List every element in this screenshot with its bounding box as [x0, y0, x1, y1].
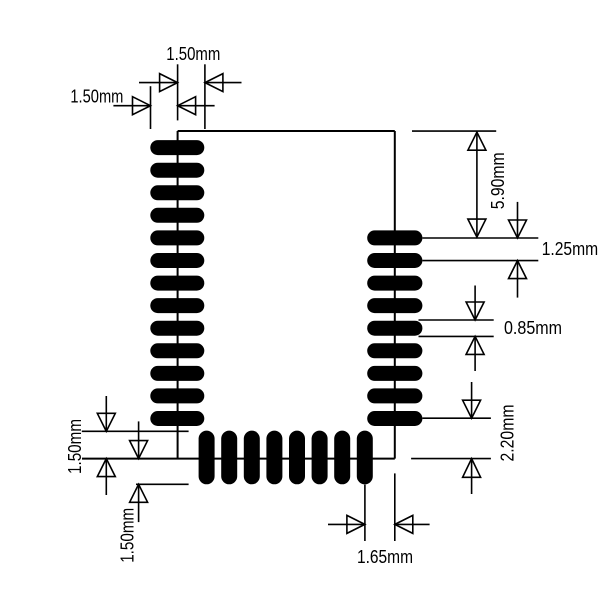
left dim 1.50mm up arrow tail: [105, 459, 107, 495]
top dim 1.50mm left-pointing arrowhead: [205, 74, 223, 92]
bottom dim 1.65mm extension line at x=394.8 (outline right prolonged): [394, 473, 396, 541]
right dim 0.85mm up arrow tail: [474, 336, 476, 371]
second top dim 1.50mm left-pointing arrow tail: [178, 105, 215, 107]
top dim 1.50mm (pad right edge to outline) extension line at x=177.6: [177, 64, 179, 120]
right dim 1.25mm up arrow tail: [517, 261, 519, 298]
left dim 1.50mm down arrowhead: [97, 413, 115, 431]
bottom pad row pad 8: [357, 431, 373, 485]
module outline right edge: [394, 131, 396, 459]
left dim 1.50mm up arrowhead: [97, 459, 115, 477]
bottom pad row pad 1: [199, 431, 215, 485]
left pad column pad 1: [150, 140, 204, 155]
bottom pad row pad 2: [221, 431, 237, 485]
right pad column pad 2: [367, 253, 422, 268]
bottom dim 1.65mm right-pointing arrow tail: [328, 523, 365, 525]
right dim 1.25mm down arrowhead: [509, 220, 527, 238]
bottom pad row pad 3: [244, 431, 260, 485]
right dim 5.90mm top extension line: [412, 130, 496, 132]
right dim 2.20mm up arrowhead: [463, 459, 481, 478]
left pad column pad 7: [150, 276, 204, 291]
right dim 1.25mm down arrow tail: [517, 202, 519, 238]
svg-text:1.50mm: 1.50mm: [166, 43, 220, 64]
right dim 0.85mm lower extension line (right pad 5 bottom): [419, 335, 494, 337]
top dim 1.50mm left-pointing arrow tail: [205, 82, 242, 84]
svg-text:1.65mm: 1.65mm: [357, 546, 413, 567]
bottom pad row pad 5: [289, 431, 305, 485]
right dim 5.90mm up arrowhead: [468, 132, 486, 150]
right dim 0.85mm down arrowhead: [466, 302, 484, 320]
second top dim 1.50mm right-pointing arrow tail: [113, 105, 150, 107]
lower left dim 1.50mm up arrowhead: [130, 484, 148, 502]
left pad column pad 8: [150, 298, 204, 313]
module outline bottom edge (extended left for dimensions): [82, 458, 395, 460]
module outline top edge: [178, 130, 395, 132]
svg-text:1.50mm: 1.50mm: [70, 86, 123, 107]
right dim 0.85mm up arrowhead: [466, 336, 484, 354]
right dim 2.20mm upper extension line (from right pad 9 centre): [422, 417, 491, 419]
right pad column pad 3: [367, 276, 422, 291]
lower left dim 1.50mm down arrowhead: [130, 441, 148, 459]
bottom dim 1.65mm right-pointing arrowhead: [347, 515, 365, 533]
left pad column pad 12: [150, 388, 204, 403]
right dim 2.20mm down arrow tail: [471, 382, 473, 418]
right pad column pad 9: [367, 411, 422, 426]
left pad column pad 3: [150, 185, 204, 200]
right pad column pad 7: [367, 366, 422, 381]
left pad column pad 11: [150, 366, 204, 381]
right dim 1.25mm up arrowhead: [509, 261, 527, 279]
second top dim 1.50mm right-pointing arrowhead: [133, 97, 151, 115]
lower left dim 1.50mm (outline to bottom pad bottom) extension line: [136, 483, 189, 485]
left pad column pad 10: [150, 343, 204, 358]
right dim 2.20mm up arrow tail: [471, 459, 473, 494]
bottom dim 1.65mm extension line at x=364.9 (last bottom pad centre): [364, 485, 366, 542]
bottom dim 1.65mm left-pointing arrowhead: [395, 515, 413, 533]
bottom pad row pad 7: [334, 431, 350, 485]
left pad column pad 4: [150, 208, 204, 223]
left pad column pad 6: [150, 253, 204, 268]
right dim 5.90mm bottom extension line (from right pad 1 centre): [422, 237, 538, 239]
svg-text:2.20mm: 2.20mm: [496, 405, 517, 462]
left pad column pad 13: [150, 411, 204, 426]
right dim 0.85mm down arrow tail: [474, 286, 476, 321]
bottom dim 1.65mm left-pointing arrow tail: [395, 523, 430, 525]
right dim 2.20mm down arrowhead: [463, 400, 481, 418]
second top dim 1.50mm left-pointing arrowhead: [178, 97, 196, 115]
second top dim 1.50mm (pad left edge to outline) extension line at x=150.5: [150, 86, 152, 129]
right pad column pad 1: [367, 230, 422, 245]
right pad column pad 4: [367, 298, 422, 313]
left dim 1.50mm (bottom pad top to outline) extension line: [82, 430, 189, 432]
right dim 1.25mm lower extension line (from right pad 2 centre): [422, 260, 538, 262]
lower left dim 1.50mm down arrow tail: [138, 421, 140, 458]
left dim 1.50mm down arrow tail: [105, 396, 107, 431]
svg-text:1.25mm: 1.25mm: [542, 238, 599, 259]
bottom pad row pad 4: [266, 431, 282, 485]
right pad column pad 6: [367, 343, 422, 358]
top dim 1.50mm right-pointing arrow tail: [139, 82, 178, 84]
left pad column pad 9: [150, 321, 204, 336]
right dim 0.85mm upper extension line (right pad 5 top): [419, 319, 494, 321]
svg-text:1.50mm: 1.50mm: [117, 508, 138, 563]
lower left dim 1.50mm up arrow tail: [138, 484, 140, 522]
module outline left edge: [177, 131, 179, 459]
svg-text:5.90mm: 5.90mm: [487, 152, 508, 209]
right pad column pad 5: [367, 321, 422, 336]
right dim 5.90mm down arrowhead: [468, 219, 486, 237]
top dim 1.50mm right-pointing arrowhead: [160, 74, 178, 92]
svg-text:0.85mm: 0.85mm: [504, 317, 562, 338]
right pad column pad 8: [367, 388, 422, 403]
svg-text:1.50mm: 1.50mm: [64, 419, 85, 474]
bottom pad row pad 6: [312, 431, 328, 485]
top dim 1.50mm extension line at x=204.9: [204, 64, 206, 129]
right dim 5.90mm dimension line: [476, 132, 478, 237]
left pad column pad 2: [150, 163, 204, 178]
right dim 2.20mm lower extension line (outline bottom prolonged): [411, 458, 491, 460]
left pad column pad 5: [150, 230, 204, 245]
